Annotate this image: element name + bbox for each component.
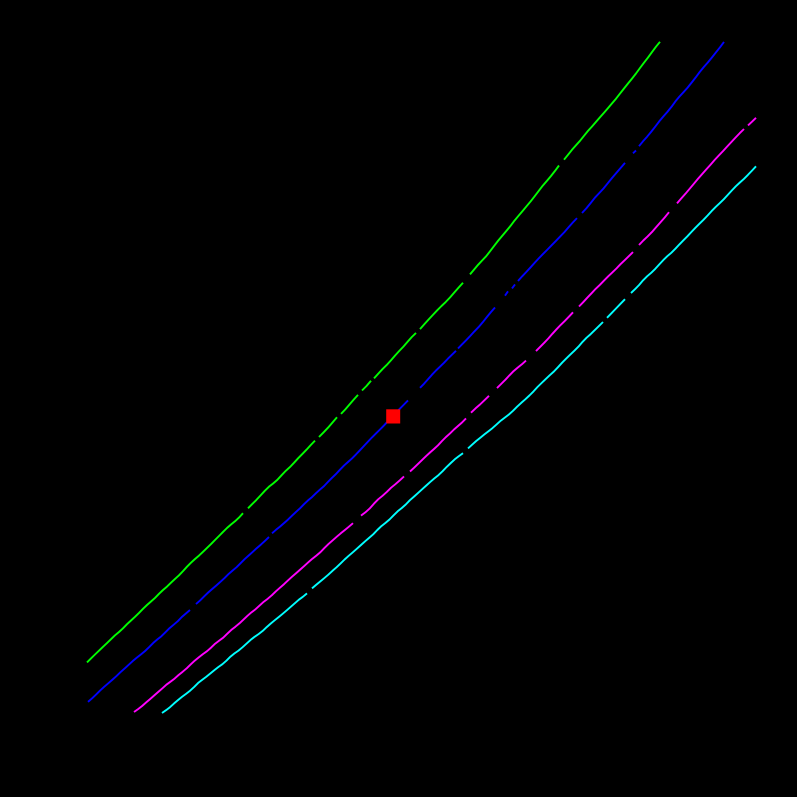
red square data-point marker xyxy=(386,409,400,423)
curve magenta dashed power-law line xyxy=(134,118,756,712)
curve blue dash-dot power-law line xyxy=(88,42,724,702)
curve green long-dashed power-law line xyxy=(87,42,660,663)
curve cyan dashed power-law line xyxy=(162,166,756,713)
